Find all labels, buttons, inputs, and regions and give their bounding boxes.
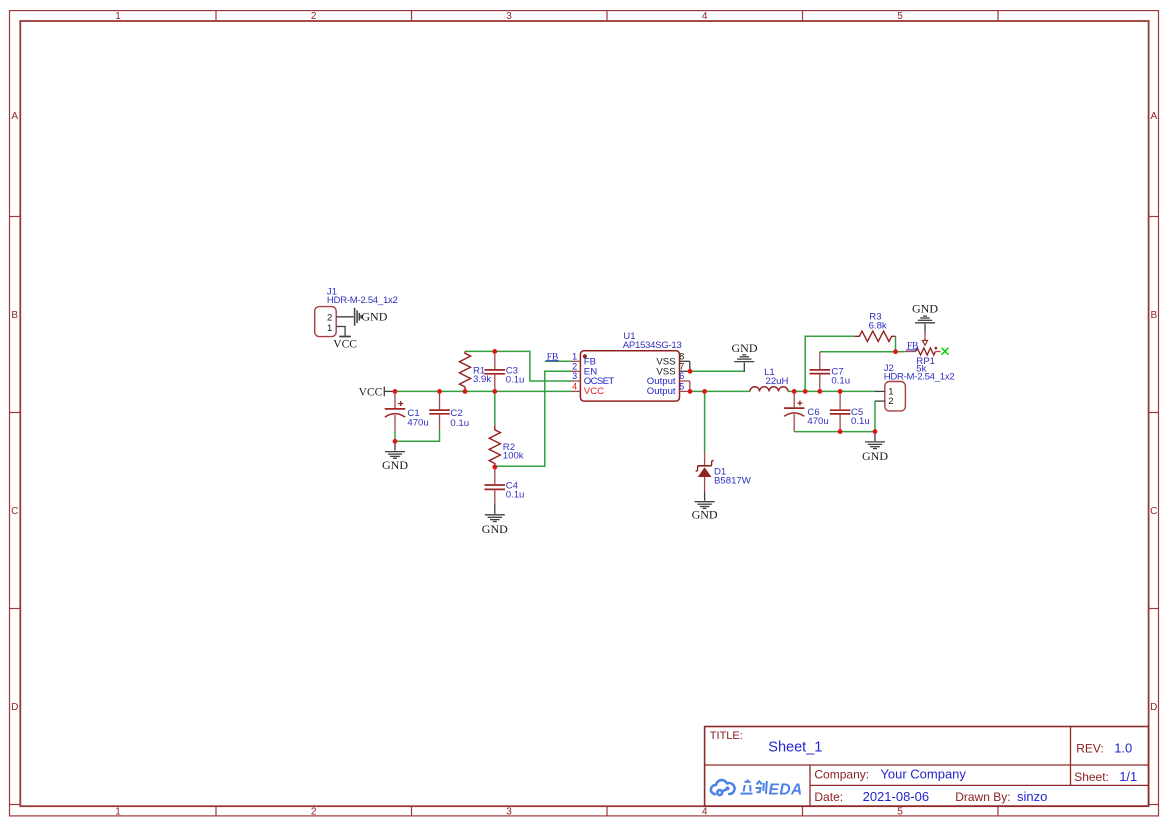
svg-text:GND: GND bbox=[361, 309, 387, 323]
svg-text:AP1534SG-13: AP1534SG-13 bbox=[623, 340, 682, 351]
wire D1 drop bbox=[704, 391, 706, 451]
svg-text:3: 3 bbox=[506, 807, 512, 818]
wire R1 top to pin3 bbox=[465, 351, 572, 381]
svg-text:3: 3 bbox=[572, 371, 577, 381]
wire pin8 to pin7 bbox=[689, 361, 691, 371]
svg-text:1/1: 1/1 bbox=[1119, 769, 1137, 784]
svg-text:D: D bbox=[1150, 702, 1157, 713]
svg-text:1: 1 bbox=[115, 807, 121, 818]
wire R2 top bbox=[494, 391, 496, 425]
ground J2 bbox=[865, 432, 885, 449]
svg-text:1: 1 bbox=[115, 11, 121, 22]
net label FB left bbox=[546, 352, 559, 362]
svg-text:0.1u: 0.1u bbox=[506, 489, 525, 500]
wire pin2 to R2 bottom bbox=[495, 371, 572, 466]
svg-text:GND: GND bbox=[382, 458, 408, 472]
svg-text:5: 5 bbox=[679, 381, 684, 391]
capacitor C4 bbox=[485, 467, 525, 505]
resistor R2 bbox=[489, 425, 524, 466]
resistor R1 bbox=[459, 351, 491, 391]
wire FB stub pin1 bbox=[545, 360, 572, 362]
svg-text:2: 2 bbox=[311, 807, 317, 818]
svg-text:3: 3 bbox=[506, 11, 512, 22]
svg-text:GND: GND bbox=[482, 522, 508, 536]
inductor L1 bbox=[750, 367, 789, 392]
svg-text:REV:: REV: bbox=[1076, 742, 1104, 756]
svg-text:4: 4 bbox=[572, 381, 577, 391]
svg-text:0.1u: 0.1u bbox=[831, 375, 850, 386]
wire R3 right drop bbox=[895, 336, 897, 351]
svg-text:100k: 100k bbox=[503, 450, 524, 461]
svg-text:6.8k: 6.8k bbox=[869, 321, 887, 332]
svg-text:B: B bbox=[11, 310, 18, 321]
svg-text:470u: 470u bbox=[407, 418, 428, 429]
svg-text:Company:: Company: bbox=[814, 768, 869, 782]
svg-text:Your Company: Your Company bbox=[880, 767, 966, 782]
svg-text:0.1u: 0.1u bbox=[851, 416, 870, 427]
no-connect X RP1 bbox=[942, 348, 949, 355]
svg-text:5: 5 bbox=[897, 11, 903, 22]
svg-text:B5817W: B5817W bbox=[714, 476, 752, 487]
svg-text:2021-08-06: 2021-08-06 bbox=[863, 789, 930, 804]
svg-text:GND: GND bbox=[912, 301, 938, 315]
svg-text:VCC: VCC bbox=[584, 386, 604, 397]
svg-text:sinzo: sinzo bbox=[1017, 789, 1047, 804]
svg-text:Output: Output bbox=[647, 386, 676, 397]
ground J1 pin2 bbox=[355, 308, 362, 326]
svg-text:4: 4 bbox=[702, 11, 708, 22]
port VCC rail bbox=[359, 386, 395, 398]
svg-text:1.0: 1.0 bbox=[1114, 741, 1132, 756]
svg-text:B: B bbox=[1150, 310, 1157, 321]
wire L1 to J2 pin1 bbox=[788, 390, 875, 392]
pin 7 VSS bbox=[680, 370, 690, 372]
svg-text:3.9k: 3.9k bbox=[473, 374, 491, 385]
svg-text:VCC: VCC bbox=[333, 338, 357, 350]
pin 5 Output bbox=[680, 390, 690, 392]
svg-text:2: 2 bbox=[311, 11, 317, 22]
pin 1 FB bbox=[572, 360, 581, 362]
left ruler ticks bbox=[10, 217, 21, 805]
svg-text:22uH: 22uH bbox=[766, 376, 789, 387]
svg-text:Date:: Date: bbox=[814, 790, 843, 804]
svg-text:4: 4 bbox=[702, 807, 708, 818]
ground D1 bbox=[695, 491, 715, 508]
立 bbox=[741, 780, 753, 794]
TITLE BLOCK bbox=[705, 727, 1149, 807]
svg-text:1: 1 bbox=[572, 351, 577, 361]
svg-text:GND: GND bbox=[732, 341, 758, 355]
svg-text:Sheet:: Sheet: bbox=[1074, 770, 1109, 784]
ground C4 bbox=[485, 505, 505, 522]
wire output bottom rail bbox=[794, 431, 875, 433]
junction dots bbox=[393, 349, 898, 470]
svg-text:HDR-M-2.54_1x2: HDR-M-2.54_1x2 bbox=[327, 295, 398, 306]
ground U1 VSS bbox=[734, 355, 754, 372]
svg-text:C: C bbox=[11, 506, 18, 517]
svg-text:A: A bbox=[1150, 111, 1157, 122]
right ruler ticks bbox=[1149, 217, 1159, 805]
pin 6 Output bbox=[680, 380, 690, 382]
ground RP1 wiper bbox=[915, 316, 935, 333]
capacitor C6 bbox=[784, 391, 829, 431]
pin 8 VSS bbox=[680, 360, 690, 362]
svg-text:2: 2 bbox=[888, 396, 893, 407]
IC U1 AP1534SG-13 bbox=[572, 331, 690, 401]
svg-text:1: 1 bbox=[327, 323, 332, 334]
svg-text:A: A bbox=[11, 111, 18, 122]
wire FB node to RP1 bbox=[896, 351, 905, 353]
创 bbox=[756, 781, 767, 794]
wire FB node to C7 bbox=[820, 351, 896, 353]
top ruler ticks bbox=[216, 11, 998, 21]
svg-text:VCC: VCC bbox=[359, 386, 383, 398]
wire J2 pin2 down bbox=[874, 401, 876, 432]
connector J2 bbox=[875, 363, 955, 411]
capacitor C2 bbox=[429, 391, 469, 429]
svg-text:HDR-M-2.54_1x2: HDR-M-2.54_1x2 bbox=[884, 371, 955, 382]
wire pin5 to L1 bbox=[690, 390, 750, 392]
pin 3 OCSET bbox=[572, 380, 581, 382]
wire pin7 to GND bbox=[690, 370, 744, 372]
svg-text:D: D bbox=[11, 702, 18, 713]
capacitor C1 bbox=[385, 394, 429, 432]
potentiometer RP1 bbox=[905, 333, 941, 374]
pin 2 EN bbox=[572, 370, 581, 372]
net label FB right bbox=[906, 342, 918, 352]
pin 4 VCC bbox=[572, 390, 581, 392]
svg-text:470u: 470u bbox=[807, 416, 828, 427]
SCHEMATIC bbox=[315, 286, 955, 536]
wire pin6 to pin5 bbox=[689, 381, 691, 391]
capacitor C3 bbox=[485, 351, 525, 391]
svg-text:C: C bbox=[1150, 506, 1157, 517]
wire VCC rail bbox=[395, 390, 572, 392]
svg-text:GND: GND bbox=[862, 449, 888, 463]
svg-text:Sheet_1: Sheet_1 bbox=[768, 740, 822, 756]
svg-text:EDA: EDA bbox=[769, 782, 803, 799]
resistor R3 bbox=[855, 311, 896, 341]
wire output riser to R3 bbox=[805, 336, 855, 391]
svg-text:2: 2 bbox=[572, 361, 577, 371]
diode D1 bbox=[696, 452, 752, 492]
svg-text:Drawn By:: Drawn By: bbox=[955, 790, 1010, 804]
connector J1 bbox=[315, 286, 398, 336]
svg-text:TITLE:: TITLE: bbox=[710, 730, 743, 742]
capacitor C5 bbox=[830, 391, 870, 431]
wire C1 C2 bottom bbox=[395, 430, 440, 442]
svg-text:5: 5 bbox=[897, 807, 903, 818]
logo bbox=[711, 780, 803, 799]
svg-text:6: 6 bbox=[679, 371, 684, 381]
svg-text:0.1u: 0.1u bbox=[450, 418, 469, 429]
capacitor C7 bbox=[810, 352, 851, 392]
svg-text:7: 7 bbox=[679, 361, 684, 371]
svg-text:8: 8 bbox=[679, 351, 684, 361]
svg-text:0.1u: 0.1u bbox=[506, 375, 525, 386]
bottom ruler ticks bbox=[216, 806, 998, 816]
svg-text:GND: GND bbox=[692, 507, 718, 521]
power VCC J1 pin1 bbox=[339, 336, 351, 338]
ground C1 bbox=[385, 441, 405, 458]
